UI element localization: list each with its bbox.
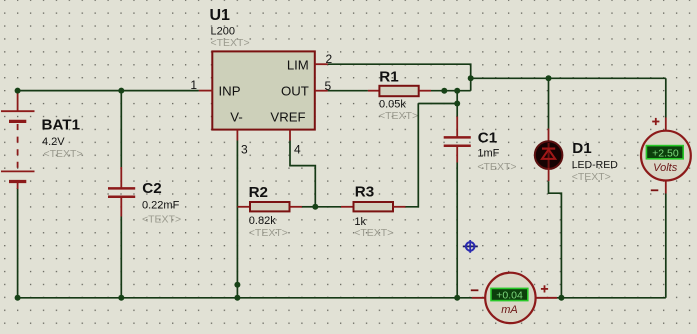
node C1 top	[454, 101, 460, 107]
voltmeter display	[646, 146, 683, 159]
svg-text:+0.04: +0.04	[496, 289, 523, 301]
svg-text:INP: INP	[219, 84, 241, 99]
resistor R3	[315, 202, 405, 211]
svg-text:C2: C2	[142, 180, 161, 197]
ammeter body	[485, 273, 535, 323]
battery BAT1	[1, 91, 35, 189]
node battery top	[15, 88, 21, 94]
voltmeter plus sign	[652, 118, 659, 125]
svg-text:BAT1: BAT1	[42, 117, 81, 134]
resistor R1	[368, 86, 431, 96]
node V- wire joint	[234, 282, 240, 288]
node rail C1	[454, 295, 460, 301]
svg-text:<TEXT>: <TEXT>	[477, 161, 516, 173]
wire voltmeter top drop	[665, 78, 667, 117]
pin 1 stub INP	[199, 90, 213, 92]
svg-text:U1: U1	[210, 7, 231, 24]
pin 2 stub LIM	[315, 63, 328, 65]
ammeter display	[491, 288, 528, 300]
wire drop to R3 right	[406, 104, 419, 207]
svg-text:3: 3	[241, 143, 248, 157]
svg-text:VREF: VREF	[270, 109, 305, 124]
wire VREF jog to R2/R3 node	[290, 141, 315, 207]
svg-text:C1: C1	[478, 129, 498, 146]
wire node4 horizontal to R3 drop	[418, 103, 457, 105]
IC U1 L200 regulator	[212, 51, 314, 129]
node rail battery	[15, 295, 21, 301]
svg-text:D1: D1	[572, 140, 592, 157]
svg-text:LIM: LIM	[287, 58, 309, 73]
node C2 top	[118, 88, 124, 94]
wire top rail from battery to U1 INP	[18, 90, 199, 92]
wire OUT to R1	[328, 90, 368, 92]
wire voltmeter bottom drop	[665, 194, 667, 298]
node LIM corner	[468, 75, 474, 81]
svg-text:L200: L200	[211, 25, 235, 37]
svg-text:mA: mA	[501, 304, 518, 316]
capacitor C1	[444, 117, 471, 298]
svg-text:<TEXT>: <TEXT>	[379, 110, 418, 122]
node R2 R3 junction	[312, 204, 318, 210]
pin 4 stub VREF	[289, 130, 291, 141]
ammeter minus sign	[471, 289, 479, 291]
svg-text:LED-RED: LED-RED	[572, 159, 619, 171]
wire battery negative lead down	[17, 188, 19, 298]
svg-text:1: 1	[190, 78, 197, 92]
svg-text:<TEXT>: <TEXT>	[44, 148, 83, 160]
svg-text:<TEXT>: <TEXT>	[249, 227, 288, 239]
wire node3 to voltmeter top run	[471, 77, 666, 79]
node R1 out a	[441, 88, 447, 94]
svg-text:0.05k: 0.05k	[379, 99, 406, 111]
svg-text:<TEXT>: <TEXT>	[142, 214, 181, 226]
svg-text:<TEXT>: <TEXT>	[354, 227, 393, 239]
svg-text:<TEXT>: <TEXT>	[572, 171, 611, 183]
pin 3 stub V-	[236, 130, 238, 141]
voltmeter lead top	[665, 118, 667, 132]
svg-text:4: 4	[294, 143, 301, 157]
capacitor C2	[108, 91, 135, 298]
voltmeter body	[641, 131, 691, 181]
wire V- down to bottom rail	[236, 141, 238, 298]
resistor R2	[237, 202, 315, 211]
node R1 out b	[454, 88, 460, 94]
wire C1 branch down from node2	[456, 91, 458, 117]
svg-text:V-: V-	[230, 109, 242, 124]
svg-text:R3: R3	[355, 184, 374, 201]
node D1 tap	[546, 75, 552, 81]
svg-text:OUT: OUT	[281, 84, 309, 99]
origin marker	[463, 240, 478, 253]
wire D1 bottom jog to rail	[549, 181, 562, 298]
svg-text:1mF: 1mF	[477, 147, 499, 159]
svg-text:R1: R1	[379, 69, 399, 86]
pin 5 stub OUT	[315, 90, 328, 92]
wire R1 to corner up	[431, 90, 471, 92]
node rail V-	[234, 295, 240, 301]
wire bottom rail	[18, 297, 666, 299]
svg-text:0.22mF: 0.22mF	[142, 199, 180, 211]
LED D1	[535, 129, 563, 182]
voltmeter lead bottom	[665, 181, 667, 194]
ammeter lead left	[472, 297, 486, 299]
voltmeter minus sign	[651, 189, 659, 191]
wire D1 branch from top run	[548, 78, 550, 128]
svg-text:Volts: Volts	[653, 162, 678, 174]
ammeter plus sign	[541, 285, 548, 292]
svg-text:R2: R2	[249, 184, 268, 201]
svg-text:4.2V: 4.2V	[42, 136, 65, 148]
node rail D1	[558, 295, 564, 301]
wire LIM to corner	[328, 64, 471, 91]
node rail C2	[118, 295, 124, 301]
svg-text:<TEXT>: <TEXT>	[211, 37, 250, 49]
svg-text:+2.50: +2.50	[652, 147, 679, 159]
svg-text:0.82k: 0.82k	[249, 215, 276, 227]
ammeter lead right	[535, 297, 557, 299]
